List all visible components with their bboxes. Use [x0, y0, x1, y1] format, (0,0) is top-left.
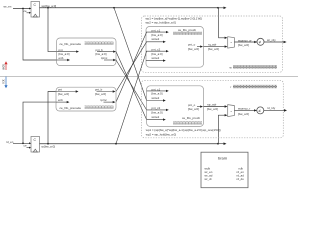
node wp to prenode — [47, 7, 49, 9]
wclk domain arrow (red) — [1, 61, 7, 70]
svg-text:r: r — [230, 85, 231, 89]
node rp diagonal — [115, 143, 117, 145]
svg-text:rck: rck — [1, 79, 5, 84]
svg-text:[bw_a:0]: [bw_a:0] — [238, 43, 249, 47]
node wp to mux — [217, 7, 219, 9]
svg-text:wnte2: wnte2 — [152, 37, 160, 41]
mux r-side — [228, 105, 235, 117]
svg-text:rd_do: rd_do — [237, 177, 245, 181]
svg-text:wcancy_w: wcancy_w — [238, 38, 252, 42]
svg-text:enb: enb — [58, 98, 63, 102]
wire wr_en down to enb — [23, 9, 57, 61]
svg-text:ce_fifo_procb: ce_fifo_procb — [178, 28, 196, 32]
block bram — [201, 152, 248, 188]
svg-text:[bw_a:0]: [bw_a:0] — [238, 112, 249, 116]
block ce_fifo_prenode (read side) — [56, 87, 116, 111]
svg-text:wnte2: wnte2 — [152, 56, 160, 60]
svg-text:ce_fifo_prenode: ce_fifo_prenode — [60, 106, 82, 110]
node rp to prenode — [47, 143, 49, 145]
clock domain boundary line — [0, 76, 298, 78]
wire rd_en up to enb — [23, 102, 56, 143]
svg-text:[bw_a:0]: [bw_a:0] — [95, 92, 106, 96]
mux w-side — [228, 37, 235, 48]
svg-text:tp/nc: tp/nc — [101, 98, 108, 102]
comparator circle w-side — [254, 41, 257, 43]
wire rp up to pnt — [48, 92, 56, 144]
diagonal wire tp/nc w to procc — [116, 60, 147, 110]
svg-text:pnt_o: pnt_o — [188, 43, 196, 47]
svg-text:wnte2: wnte2 — [152, 96, 160, 100]
wire rd_rdy output — [264, 109, 285, 111]
svg-text:rd_en: rd_en — [6, 140, 14, 144]
wire wp arrow end — [218, 7, 225, 9]
svg-text:enb: enb — [59, 56, 64, 60]
svg-text:wp[bw_a:0]: wp[bw_a:0] — [42, 4, 57, 8]
svg-text:wr_rdy: wr_rdy — [267, 38, 276, 42]
wire r-mux out to comparator — [234, 109, 256, 111]
wire wp down to w-mux — [219, 8, 225, 38]
wire mux out to comparator — [234, 41, 257, 43]
wire wr_rdy output — [264, 41, 284, 43]
node wp diagonal — [113, 7, 115, 9]
svg-text:pnt_c2: pnt_c2 — [152, 106, 161, 110]
svg-text:pnt_c2: pnt_c2 — [152, 47, 161, 51]
dashed group box r-side — [142, 80, 284, 138]
svg-text:bram: bram — [218, 156, 228, 161]
wire write pointer (top long wire) — [40, 7, 219, 9]
diagonal wire rp to procb — [116, 51, 147, 144]
wire rp up to r-mux — [218, 115, 224, 144]
svg-text:[bw_a:0]: [bw_a:0] — [207, 107, 218, 111]
wire rq_adr to w-mux — [204, 46, 225, 48]
svg-text:wr_en: wr_en — [4, 5, 12, 9]
flip-flop U1 — [24, 2, 40, 18]
svg-text:[bw_a:0]: [bw_a:0] — [58, 92, 69, 96]
svg-text:ce: ce — [24, 9, 27, 13]
block ce_fifo_procb (write side) — [146, 27, 204, 68]
comparator circle r-side — [254, 109, 257, 111]
wire wp down to pnt — [48, 8, 57, 52]
node rp to mux — [217, 143, 219, 145]
svg-text:[bw_a:0]: [bw_a:0] — [188, 47, 199, 51]
diagonal wire pnt_b r to procb — [116, 42, 147, 92]
flip-flop U2 — [24, 137, 40, 153]
wire rd_en to FF — [13, 142, 31, 144]
svg-text:wcancy_r: wcancy_r — [238, 107, 250, 111]
svg-text:pnt: pnt — [58, 88, 62, 92]
wire rp arrow end — [218, 143, 225, 145]
wire rqr_adr to r-mux — [204, 106, 225, 108]
wire read pointer (bottom long wire) — [40, 143, 219, 145]
node rd_en branch — [22, 142, 24, 144]
svg-text:wck: wck — [1, 64, 5, 70]
svg-text:rp[bw_a:0]: rp[bw_a:0] — [42, 144, 56, 148]
dashed group box w-side — [142, 16, 283, 72]
svg-text:pnt_b: pnt_b — [95, 88, 103, 92]
svg-text:tp/nc: tp/nc — [101, 56, 108, 60]
wire wr_en to FF — [13, 8, 31, 10]
diagonal wire pnt_b w to procc — [116, 52, 147, 120]
block ce_fifo_procb (read side) — [147, 86, 204, 127]
svg-text:wp2 = wp_hold[bw_a:0]: wp2 = wp_hold[bw_a:0] — [146, 132, 176, 136]
svg-text:[bw_a:0]: [bw_a:0] — [208, 47, 219, 51]
svg-text:wr_di: wr_di — [205, 177, 212, 181]
svg-text:[bw_a:0]: [bw_a:0] — [188, 107, 199, 111]
diagonal wire tp/nc r to procb — [116, 32, 147, 102]
svg-text:ce: ce — [24, 144, 27, 148]
block ce_fifo_prenode (write side) — [57, 38, 117, 66]
svg-text:ce_fifo_procb: ce_fifo_procb — [182, 116, 200, 120]
svg-text:rd_rdy: rd_rdy — [267, 106, 276, 110]
svg-text:pnt_o: pnt_o — [188, 103, 196, 107]
svg-text:wp2 = wp_hold[bw_a:0]: wp2 = wp_hold[bw_a:0] — [146, 21, 176, 25]
node wr_en branch — [22, 8, 24, 10]
svg-text:wnte2: wnte2 — [152, 115, 160, 119]
rclk domain arrow (blue) — [1, 77, 7, 89]
svg-text:ce_fifo_prenode: ce_fifo_prenode — [60, 42, 82, 46]
diagonal wire wp to procc — [114, 8, 147, 101]
